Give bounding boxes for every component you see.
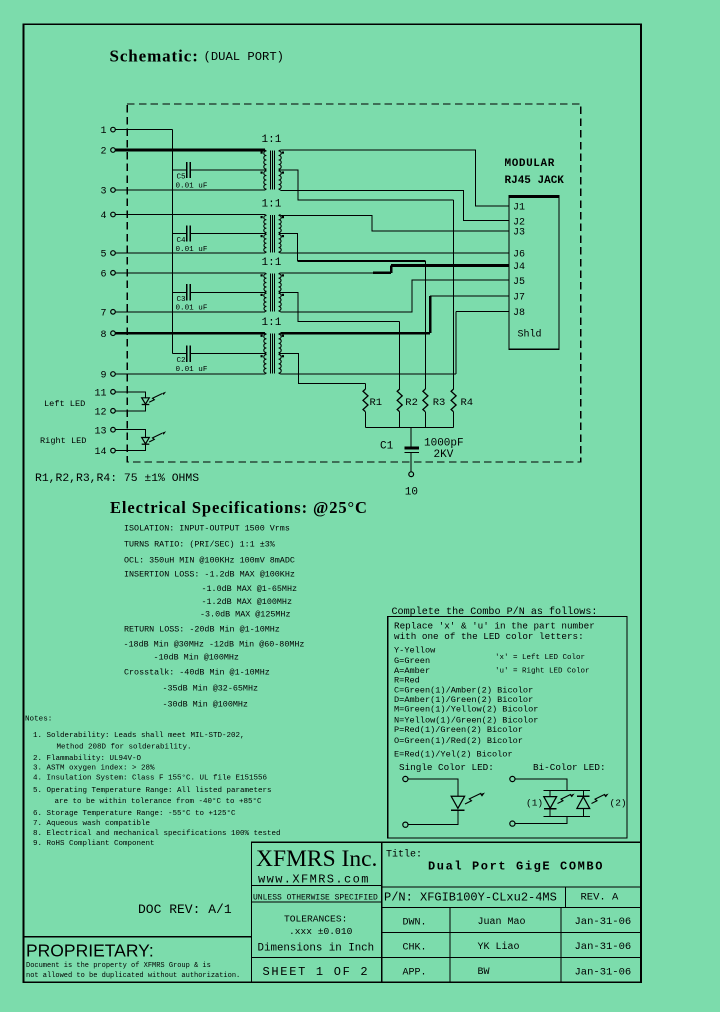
- RJ45 jack box (MODULAR RJ45 JACK): [509, 196, 559, 350]
- svg-text:4: 4: [100, 211, 106, 222]
- svg-text:Document is the property of XF: Document is the property of XFMRS Group …: [26, 962, 211, 970]
- svg-text:Left LED: Left LED: [44, 399, 85, 409]
- wire jack J8 row: [456, 310, 509, 312]
- wire single LED bottom: [408, 811, 458, 825]
- svg-text:TURNS RATIO: (PRI/SEC) 1:1 ±3%: TURNS RATIO: (PRI/SEC) 1:1 ±3%: [124, 540, 276, 550]
- proprietary notice box: [24, 937, 252, 983]
- svg-text:Dimensions in Inch: Dimensions in Inch: [258, 943, 375, 955]
- pin 9 terminal circle: [111, 372, 116, 377]
- wire R2 bottom lead: [399, 412, 401, 428]
- wire T2 secondary tap elbow: [281, 234, 298, 262]
- wire pin 11 to left LED anode: [115, 392, 145, 398]
- svg-text:R=Red: R=Red: [394, 676, 420, 686]
- resistor R3 75 ohm: [423, 389, 428, 412]
- pin 2 terminal circle: [111, 148, 116, 153]
- pin 11 terminal circle: [111, 390, 116, 395]
- svg-text:0.01 uF: 0.01 uF: [176, 246, 208, 254]
- svg-text:-1.2dB MAX @100MHz: -1.2dB MAX @100MHz: [202, 597, 292, 607]
- svg-text:R1,R2,R3,R4: 75 ±1% OHMS: R1,R2,R3,R4: 75 ±1% OHMS: [35, 473, 199, 485]
- svg-text:J5: J5: [513, 277, 525, 288]
- divider under CHK row: [382, 956, 641, 958]
- capacitor C2 0.01 uF on tap: [172, 353, 186, 355]
- wire vertical cap common rail from pin 1: [171, 130, 173, 354]
- svg-text:6: 6: [100, 269, 106, 280]
- capacitor C3 0.01 uF on tap: [172, 291, 186, 293]
- svg-text:0.01 uF: 0.01 uF: [176, 366, 208, 374]
- svg-text:not allowed to be duplicated w: not allowed to be duplicated without aut…: [26, 972, 240, 980]
- divider above SHEET row: [252, 956, 382, 958]
- transformer T2 (1:1): [261, 215, 285, 254]
- svg-text:-3.0dB MAX @125MHz: -3.0dB MAX @125MHz: [200, 610, 290, 620]
- svg-text:C2: C2: [177, 357, 187, 365]
- wire pin 3 to T1 primary bottom: [115, 189, 265, 191]
- title block divider: company column: [381, 842, 383, 982]
- svg-text:Title:: Title:: [386, 849, 422, 861]
- wire pin 9 to T4 primary bottom: [115, 373, 265, 375]
- svg-text:Electrical Specifications: @25: Electrical Specifications: @25°C: [110, 498, 368, 517]
- svg-text:2. Flammability: UL94V-O: 2. Flammability: UL94V-O: [33, 755, 142, 763]
- wire T1 secondary tap toward R4: [281, 170, 454, 200]
- svg-text:R2: R2: [405, 397, 418, 409]
- svg-text:J8: J8: [513, 308, 525, 319]
- wire T3 secondary top: [281, 272, 375, 274]
- svg-text:J7: J7: [513, 293, 525, 304]
- svg-text:O=Green(1)/Red(2) Bicolor: O=Green(1)/Red(2) Bicolor: [394, 736, 523, 746]
- svg-text:R3: R3: [433, 397, 446, 409]
- svg-text:1:1: 1:1: [262, 199, 282, 211]
- svg-text:are to be within tolerance fro: are to be within tolerance from -40°C to…: [55, 797, 263, 806]
- wire vertical T4 top up to J7 row: [429, 296, 432, 333]
- svg-text:C4: C4: [177, 237, 187, 245]
- wire R3 bottom lead: [424, 412, 426, 428]
- transformer T4 (1:1): [261, 333, 285, 374]
- pin 7 terminal circle: [111, 310, 116, 315]
- svg-text:RETURN LOSS: -20dB Min @1-10MH: RETURN LOSS: -20dB Min @1-10MHz: [124, 625, 280, 635]
- svg-text:Schematic:: Schematic:: [110, 47, 199, 66]
- bi-color bottom rail: [544, 816, 591, 818]
- svg-text:'x' = Left LED Color: 'x' = Left LED Color: [495, 654, 585, 662]
- bi-color diode 1 (down): [549, 791, 551, 797]
- wire vertical T4 bottom up to J8 row: [455, 311, 457, 374]
- wire pin 13 to right LED anode: [115, 430, 145, 438]
- wire stub T4 tap into R1: [365, 384, 367, 390]
- svg-text:(2): (2): [610, 798, 627, 809]
- svg-text:E=Red(1)/Yel(2) Bicolor: E=Red(1)/Yel(2) Bicolor: [394, 749, 513, 759]
- svg-text:Shld: Shld: [518, 329, 542, 341]
- svg-text:0.01 uF: 0.01 uF: [176, 305, 208, 313]
- divider under P/N row: [382, 906, 641, 908]
- svg-text:M=Green(1)/Yellow(2) Bicolor: M=Green(1)/Yellow(2) Bicolor: [394, 705, 538, 715]
- svg-text:Bi-Color LED:: Bi-Color LED:: [533, 762, 606, 773]
- svg-text:1:1: 1:1: [262, 134, 282, 146]
- transformer T1 (1:1): [261, 150, 285, 190]
- svg-text:CHK.: CHK.: [403, 942, 427, 953]
- svg-text:7. Aqueous wash compatible: 7. Aqueous wash compatible: [33, 820, 150, 828]
- svg-text:P=Red(1)/Green(2) Bicolor: P=Red(1)/Green(2) Bicolor: [394, 725, 523, 735]
- wire vertical T3 top up to J4 row: [390, 265, 393, 272]
- bi-color LED top terminal: [510, 776, 515, 781]
- wire T3 secondary top thick segment: [373, 271, 391, 274]
- svg-text:7: 7: [100, 308, 106, 319]
- wire T4 secondary bottom: [281, 373, 457, 375]
- svg-text:0.01 uF: 0.01 uF: [176, 182, 208, 190]
- wire pin 1 to cap rail: [115, 129, 172, 131]
- svg-text:P/N: XFGIB100Y-CLxu2-4MS: P/N: XFGIB100Y-CLxu2-4MS: [384, 890, 557, 904]
- svg-text:5: 5: [100, 250, 106, 261]
- svg-text:Crosstalk: -40dB Min @1-10MHz: Crosstalk: -40dB Min @1-10MHz: [124, 668, 270, 678]
- svg-text:BW: BW: [478, 967, 490, 978]
- svg-text:-10dB Min @100MHz: -10dB Min @100MHz: [154, 653, 239, 663]
- svg-text:2KV: 2KV: [434, 449, 454, 461]
- wire pin 5 to T2 primary bottom: [115, 252, 265, 254]
- wire right LED cathode to pin 14: [115, 445, 145, 451]
- svg-text:XFMRS Inc.: XFMRS Inc.: [256, 846, 377, 872]
- svg-text:ISOLATION: INPUT-OUTPUT 1500 V: ISOLATION: INPUT-OUTPUT 1500 Vrms: [124, 524, 290, 534]
- wire R1 bottom lead: [365, 412, 367, 428]
- svg-text:J3: J3: [513, 228, 525, 239]
- svg-text:1:1: 1:1: [262, 257, 282, 269]
- svg-text:'u' = Right LED Color: 'u' = Right LED Color: [495, 668, 590, 676]
- bi-color LED bottom terminal: [510, 821, 515, 826]
- svg-text:-30dB Min @100MHz: -30dB Min @100MHz: [163, 700, 248, 710]
- pin 1 terminal circle: [111, 127, 116, 132]
- svg-text:RJ45 JACK: RJ45 JACK: [505, 175, 565, 187]
- pin 14 terminal circle: [111, 448, 116, 453]
- svg-text:with one of the LED color lett: with one of the LED color letters:: [394, 631, 584, 642]
- svg-text:1000pF: 1000pF: [424, 437, 464, 449]
- svg-text:Y-Yellow: Y-Yellow: [394, 646, 436, 656]
- wire C1 to pin 10: [410, 453, 412, 472]
- svg-text:6. Storage Temperature Range:: 6. Storage Temperature Range: -55°C to +…: [33, 809, 236, 818]
- svg-text:10: 10: [405, 487, 418, 499]
- bi-color diode 2 (up): [582, 791, 584, 797]
- svg-text:3: 3: [100, 187, 106, 198]
- svg-text:-1.0dB MAX @1-65MHz: -1.0dB MAX @1-65MHz: [202, 584, 298, 594]
- wire rail to C1: [410, 427, 412, 447]
- wire vertical T3 tap down to R2: [399, 322, 401, 389]
- svg-text:1: 1: [100, 126, 106, 137]
- transformer T3 (1:1): [261, 273, 285, 312]
- jack box top edge (thick): [509, 195, 559, 198]
- svg-text:8. Electrical and mechanical: 8. Electrical and mechanical specificati…: [33, 830, 281, 838]
- C1 plate 2: [405, 451, 420, 453]
- wire pin 4 to T2 primary top: [115, 214, 265, 216]
- svg-text:Jan-31-06: Jan-31-06: [575, 916, 632, 928]
- pin 3 terminal circle: [111, 188, 116, 193]
- wire jack J7 row: [430, 295, 509, 297]
- svg-text:1:1: 1:1: [262, 317, 282, 329]
- svg-text:DOC REV: A/1: DOC REV: A/1: [138, 902, 232, 917]
- svg-text:OCL: 350uH MIN @100KHz 100mV 8: OCL: 350uH MIN @100KHz 100mV 8mADC: [124, 556, 295, 566]
- svg-text:Dual Port GigE COMBO: Dual Port GigE COMBO: [428, 860, 604, 874]
- divider under Title row: [382, 886, 641, 888]
- svg-text:C1: C1: [380, 441, 394, 453]
- svg-text:www.XFMRS.com: www.XFMRS.com: [258, 873, 370, 887]
- svg-text:2: 2: [100, 147, 106, 158]
- wire pin 7 to T3 primary bottom: [115, 311, 265, 313]
- divider under www.XFMRS.com: [252, 884, 382, 886]
- divider P/N | REV: [565, 887, 567, 908]
- svg-text:INSERTION LOSS: -1.2dB MAX @10: INSERTION LOSS: -1.2dB MAX @100KHz: [124, 570, 295, 580]
- LED right indicator D2: [142, 438, 150, 444]
- divider role | name column: [449, 907, 451, 982]
- wire T3 secondary tap toward R2: [281, 292, 400, 321]
- svg-text:MODULAR: MODULAR: [505, 158, 555, 170]
- svg-text:G=Green: G=Green: [394, 656, 430, 666]
- svg-text:Jan-31-06: Jan-31-06: [575, 966, 632, 978]
- svg-text:SHEET 1 OF 2: SHEET 1 OF 2: [263, 965, 370, 979]
- capacitor C4 0.01 uF on tap: [172, 233, 186, 235]
- pin 10 terminal circle: [409, 472, 414, 477]
- svg-text:C5: C5: [177, 174, 187, 182]
- single LED top terminal: [403, 776, 408, 781]
- divider name | date column: [560, 907, 562, 982]
- svg-text:Notes:: Notes:: [25, 716, 52, 724]
- divider under DWN row: [382, 931, 641, 933]
- wire T1 secondary top to jack J1: [281, 150, 510, 206]
- wire T3 secondary bottom to jack J5: [281, 280, 510, 312]
- svg-text:13: 13: [94, 426, 106, 437]
- svg-text:1. Solderability: Leads shall: 1. Solderability: Leads shall meet MIL-S…: [33, 732, 245, 740]
- wire bi-color bottom feed: [515, 817, 567, 824]
- svg-text:Method 208D for solderability.: Method 208D for solderability.: [57, 743, 192, 751]
- wire pin 8 to T4 primary top (thick): [115, 332, 265, 335]
- wire T2 secondary bottom to jack J6: [281, 252, 510, 254]
- svg-text:4. Insulation System: Class F: 4. Insulation System: Class F 155°C. UL …: [33, 774, 268, 783]
- wire T1 secondary bottom to jack J2: [281, 190, 510, 220]
- svg-text:-35dB Min @32-65MHz: -35dB Min @32-65MHz: [163, 684, 259, 694]
- single LED bottom terminal: [403, 822, 408, 827]
- wire single LED top: [408, 779, 458, 796]
- svg-text:3. ASTM oxygen index: > 28%: 3. ASTM oxygen index: > 28%: [33, 765, 155, 773]
- svg-text:C3: C3: [177, 296, 187, 304]
- svg-text:D=Amber(1)/Green(2) Bicolor: D=Amber(1)/Green(2) Bicolor: [394, 695, 533, 705]
- pin 13 terminal circle: [111, 427, 116, 432]
- svg-text:Jan-31-06: Jan-31-06: [575, 941, 632, 953]
- wire pin 2 to T1 primary top (thick): [115, 149, 265, 152]
- svg-text:(DUAL PORT): (DUAL PORT): [204, 50, 284, 64]
- svg-text:J1: J1: [513, 203, 525, 214]
- resistor R4 75 ohm: [451, 389, 456, 412]
- svg-text:11: 11: [94, 388, 106, 399]
- title block table: [252, 842, 641, 982]
- svg-text:REV. A: REV. A: [581, 892, 620, 904]
- svg-text:R1: R1: [370, 397, 383, 409]
- wire left LED cathode to pin 12: [115, 405, 145, 411]
- svg-text:DWN.: DWN.: [403, 917, 427, 928]
- svg-text:Replace 'x' & 'u' in the part: Replace 'x' & 'u' in the part number: [394, 620, 595, 631]
- svg-text:A=Amber: A=Amber: [394, 666, 430, 676]
- svg-text:12: 12: [94, 407, 106, 418]
- wire R4 bottom lead: [453, 412, 455, 428]
- dashed module boundary box: [127, 104, 581, 462]
- svg-text:PROPRIETARY:: PROPRIETARY:: [26, 941, 154, 961]
- svg-text:C=Green(1)/Amber(2) Bicolor: C=Green(1)/Amber(2) Bicolor: [394, 685, 533, 695]
- wire vertical T2 tap down to R3: [424, 261, 426, 389]
- svg-text:9: 9: [100, 371, 106, 382]
- svg-text:UNLESS OTHERWISE SPECIFIED: UNLESS OTHERWISE SPECIFIED: [253, 893, 378, 902]
- wire T4 secondary top (thick): [281, 332, 431, 335]
- svg-text:Right LED: Right LED: [40, 436, 86, 446]
- wire bi-color top feed: [515, 779, 567, 791]
- LED left indicator D1: [142, 398, 150, 404]
- svg-text:-18dB Min @30MHz -12dB Min @60: -18dB Min @30MHz -12dB Min @60-80MHz: [124, 640, 305, 650]
- pin 8 terminal circle: [111, 331, 116, 336]
- wire T2 secondary top to jack J3: [281, 216, 510, 231]
- pin 4 terminal circle: [111, 212, 116, 217]
- pin 5 terminal circle: [111, 251, 116, 256]
- wire vertical T1 tap down to R4: [453, 200, 455, 389]
- wire T4 secondary tap toward R1: [281, 354, 366, 384]
- capacitor C5 0.01 uF on tap: [172, 169, 186, 171]
- svg-text:14: 14: [94, 447, 106, 458]
- svg-text:R4: R4: [461, 397, 474, 409]
- pin 12 terminal circle: [111, 409, 116, 414]
- svg-text:YK Liao: YK Liao: [478, 941, 520, 953]
- svg-text:J6: J6: [513, 250, 525, 261]
- wire T2 tap horizontal run toward R3: [298, 260, 426, 262]
- resistor R1 75 ohm: [363, 389, 368, 412]
- pin 6 terminal circle: [111, 271, 116, 276]
- svg-text:Juan Mao: Juan Mao: [478, 917, 526, 928]
- svg-text:8: 8: [100, 330, 106, 341]
- wire resistor common rail: [366, 426, 454, 428]
- svg-text:Single Color LED:: Single Color LED:: [399, 762, 494, 773]
- wire pin 6 to T3 primary top: [115, 272, 265, 274]
- wire jack J4 row (thick): [391, 264, 509, 267]
- bi-color emission arrows: [558, 794, 572, 803]
- single LED cathode bar: [451, 809, 464, 811]
- C1 plate 1 (thick): [405, 447, 420, 450]
- divider under UNLESS OTHERWISE SPECIFIED: [252, 901, 382, 903]
- svg-text:TOLERANCES:: TOLERANCES:: [284, 914, 347, 925]
- svg-text:J4: J4: [513, 262, 525, 273]
- combo P/N legend box: [388, 617, 627, 839]
- svg-text:.xxx ±0.010: .xxx ±0.010: [289, 926, 353, 937]
- svg-text:5. Operating Temperature Rang: 5. Operating Temperature Range: All list…: [33, 787, 272, 795]
- bi-color top rail: [544, 790, 591, 792]
- svg-text:9. RoHS Compliant Component: 9. RoHS Compliant Component: [33, 840, 155, 848]
- svg-text:APP.: APP.: [403, 968, 427, 979]
- resistor R2 75 ohm: [397, 389, 402, 412]
- svg-text:(1): (1): [526, 798, 543, 809]
